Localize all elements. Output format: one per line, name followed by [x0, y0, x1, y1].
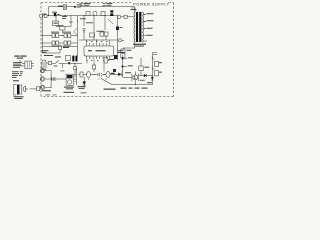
- svg-text:POWER SUPPLY: POWER SUPPLY: [133, 2, 169, 6]
